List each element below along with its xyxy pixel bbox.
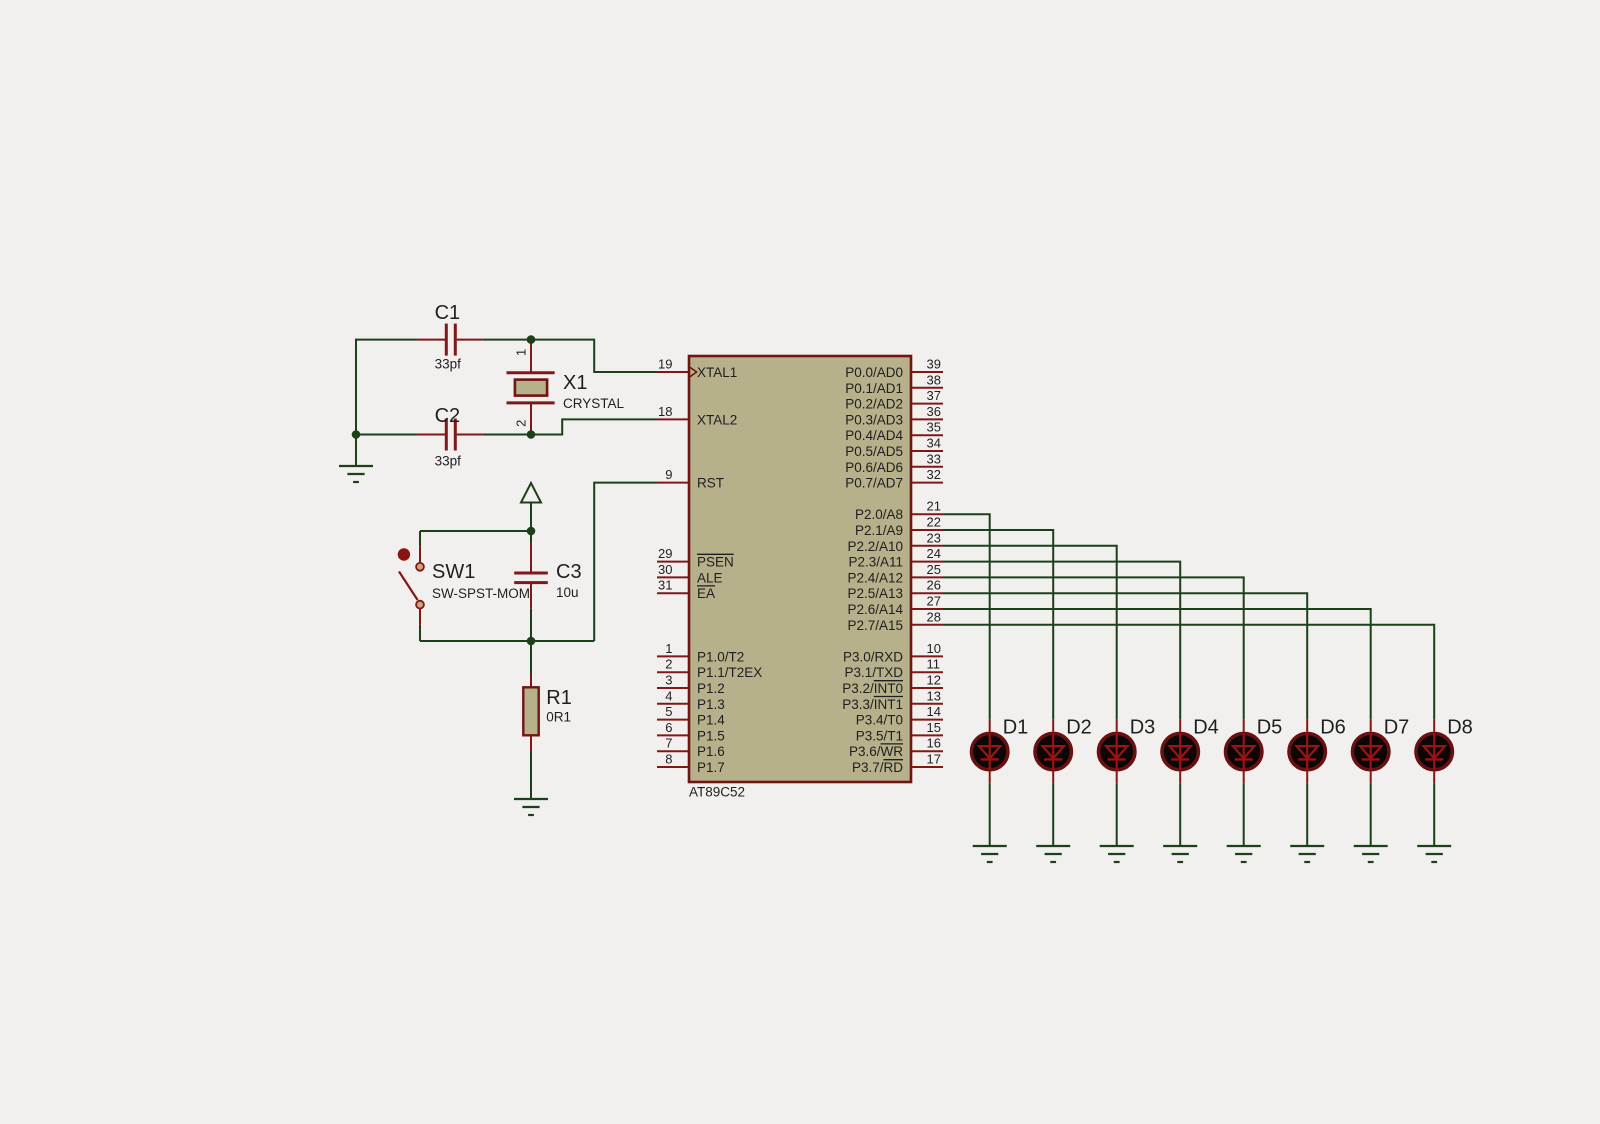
pin 8 P1.7 (U1 left) bbox=[657, 752, 725, 776]
wire R1 to ground bbox=[530, 752, 532, 800]
pin 31 EA (U1 left) bbox=[657, 578, 715, 602]
pin 10 P3.0/RXD (U1 right) bbox=[843, 641, 943, 665]
svg-text:D2: D2 bbox=[1066, 717, 1092, 739]
U1 part label AT89C52 bbox=[689, 785, 745, 800]
ground (crystal rail) bbox=[339, 466, 373, 482]
svg-text:XTAL2: XTAL2 bbox=[697, 412, 737, 427]
svg-text:XTAL1: XTAL1 bbox=[697, 365, 737, 380]
pin 21 P2.0/A8 (U1 right) bbox=[855, 499, 943, 523]
svg-text:11: 11 bbox=[927, 657, 941, 672]
pin 27 P2.6/A14 (U1 right) bbox=[847, 594, 943, 618]
junction node power/C3 top bbox=[527, 527, 536, 536]
svg-text:SW1: SW1 bbox=[432, 561, 475, 583]
svg-text:P0.0/AD0: P0.0/AD0 bbox=[845, 365, 903, 380]
pin 14 P3.4/T0 (U1 right) bbox=[856, 704, 943, 728]
ground (D4) bbox=[1163, 846, 1197, 862]
svg-text:36: 36 bbox=[927, 404, 941, 419]
pin 22 P2.1/A9 (U1 right) bbox=[855, 515, 943, 539]
wire LED D6 to ground bbox=[1306, 783, 1308, 846]
LED D1 bbox=[972, 717, 1029, 784]
svg-text:RST: RST bbox=[697, 476, 724, 491]
pin 6 P1.5 (U1 left) bbox=[657, 720, 725, 744]
pin 24 P2.3/A11 (U1 right) bbox=[848, 546, 943, 570]
wire P2.6 to LED D7 bbox=[943, 609, 1371, 719]
svg-text:15: 15 bbox=[927, 720, 941, 735]
capacitor C1 bbox=[418, 302, 483, 371]
svg-text:P0.7/AD7: P0.7/AD7 bbox=[845, 476, 903, 491]
wire LED D2 to ground bbox=[1052, 783, 1054, 846]
wire LED D7 to ground bbox=[1370, 783, 1372, 846]
svg-text:C1: C1 bbox=[435, 302, 461, 324]
svg-text:39: 39 bbox=[927, 357, 941, 372]
LED D3 bbox=[1099, 717, 1156, 784]
LED D2 bbox=[1035, 717, 1092, 784]
svg-text:P1.2: P1.2 bbox=[697, 681, 725, 696]
svg-text:0R1: 0R1 bbox=[546, 710, 571, 725]
svg-text:12: 12 bbox=[927, 673, 941, 688]
pin 36 P0.3/AD3 (U1 right) bbox=[845, 404, 943, 428]
pin 13 P3.3/INT1 (U1 right) bbox=[842, 688, 943, 712]
svg-text:14: 14 bbox=[927, 704, 941, 719]
svg-text:P3.5/T1: P3.5/T1 bbox=[856, 728, 903, 743]
junction node XTAL1/C1/X1 bbox=[527, 335, 536, 344]
wire LED D8 to ground bbox=[1433, 783, 1435, 846]
svg-text:P1.6: P1.6 bbox=[697, 744, 725, 759]
svg-text:17: 17 bbox=[927, 752, 941, 767]
svg-text:23: 23 bbox=[927, 530, 941, 545]
pin 35 P0.4/AD4 (U1 right) bbox=[845, 420, 943, 444]
pin 34 P0.5/AD5 (U1 right) bbox=[845, 436, 943, 460]
wire C1 left segment bbox=[356, 339, 418, 341]
svg-text:27: 27 bbox=[927, 594, 941, 609]
svg-text:P3.2/INT0: P3.2/INT0 bbox=[842, 681, 903, 696]
IC U1 AT89C52 body bbox=[689, 356, 911, 782]
svg-text:5: 5 bbox=[665, 704, 672, 719]
ground (D7) bbox=[1354, 846, 1388, 862]
ground (D2) bbox=[1036, 846, 1070, 862]
pin 38 P0.1/AD1 (U1 right) bbox=[845, 372, 943, 396]
svg-text:21: 21 bbox=[927, 499, 941, 514]
svg-text:P2.7/A15: P2.7/A15 bbox=[847, 618, 903, 633]
LED D8 bbox=[1416, 717, 1473, 784]
svg-text:P2.3/A11: P2.3/A11 bbox=[848, 555, 903, 570]
svg-text:C2: C2 bbox=[435, 405, 461, 427]
svg-text:D7: D7 bbox=[1384, 717, 1410, 739]
svg-text:SW-SPST-MOM: SW-SPST-MOM bbox=[432, 586, 530, 601]
svg-text:9: 9 bbox=[665, 467, 672, 482]
svg-text:P1.4: P1.4 bbox=[697, 713, 725, 728]
pin 29 PSEN (U1 left) bbox=[657, 546, 734, 570]
svg-text:33: 33 bbox=[927, 451, 941, 466]
pin 39 P0.0/AD0 (U1 right) bbox=[845, 357, 943, 381]
pin 18 XTAL2 (U1 left) bbox=[657, 404, 737, 428]
svg-text:28: 28 bbox=[927, 609, 941, 624]
svg-text:P0.1/AD1: P0.1/AD1 bbox=[845, 381, 903, 396]
wire node RST up to pin 9 bbox=[594, 483, 657, 641]
svg-text:P2.2/A10: P2.2/A10 bbox=[847, 539, 903, 554]
wire SW1 bottom to node RST bbox=[420, 625, 594, 641]
junction node left rail / C2 bbox=[352, 430, 361, 439]
svg-text:P0.5/AD5: P0.5/AD5 bbox=[845, 444, 903, 459]
pin 2 P1.1/T2EX (U1 left) bbox=[657, 657, 762, 681]
pin 23 P2.2/A10 (U1 right) bbox=[847, 530, 943, 554]
svg-text:P1.1/T2EX: P1.1/T2EX bbox=[697, 665, 762, 680]
svg-text:33pf: 33pf bbox=[435, 453, 462, 468]
svg-text:P1.3: P1.3 bbox=[697, 697, 725, 712]
wire P2.7 to LED D8 bbox=[943, 625, 1434, 719]
pin 1 P1.0/T2 (U1 left) bbox=[657, 641, 744, 665]
svg-text:R1: R1 bbox=[546, 687, 572, 709]
resistor R1 bbox=[523, 641, 572, 752]
wire C1 right to node XTAL1 bbox=[483, 340, 657, 372]
wire left rail vertical bbox=[355, 339, 357, 466]
crystal X1 bbox=[507, 340, 625, 435]
pin 28 P2.7/A15 (U1 right) bbox=[847, 609, 943, 633]
svg-text:CRYSTAL: CRYSTAL bbox=[563, 396, 625, 411]
svg-text:ALE: ALE bbox=[697, 570, 723, 585]
svg-text:D8: D8 bbox=[1447, 717, 1473, 739]
pin 19 XTAL1 (U1 left) bbox=[657, 357, 737, 381]
svg-text:P3.0/RXD: P3.0/RXD bbox=[843, 649, 903, 664]
pin 9 RST (U1 left) bbox=[657, 467, 724, 491]
pin 11 P3.1/TXD (U1 right) bbox=[844, 657, 943, 681]
power symbol (reset pull-up arrow) bbox=[521, 483, 541, 531]
svg-text:2: 2 bbox=[665, 657, 672, 672]
capacitor C2 bbox=[418, 405, 483, 469]
svg-text:30: 30 bbox=[658, 562, 672, 577]
svg-text:X1: X1 bbox=[563, 372, 587, 394]
svg-text:P1.5: P1.5 bbox=[697, 728, 725, 743]
LED D4 bbox=[1162, 717, 1219, 784]
wire C2 left segment bbox=[356, 434, 418, 436]
pin 33 P0.6/AD6 (U1 right) bbox=[845, 451, 943, 475]
svg-text:29: 29 bbox=[658, 546, 672, 561]
pin 37 P0.2/AD2 (U1 right) bbox=[845, 388, 943, 412]
pin 25 P2.4/A12 (U1 right) bbox=[847, 562, 943, 586]
ground (R1) bbox=[514, 799, 548, 815]
ground (D6) bbox=[1290, 846, 1324, 862]
svg-text:P2.6/A14: P2.6/A14 bbox=[847, 602, 903, 617]
wire P2.0 to LED D1 bbox=[943, 514, 990, 719]
svg-text:4: 4 bbox=[665, 688, 672, 703]
svg-text:18: 18 bbox=[658, 404, 672, 419]
svg-text:1: 1 bbox=[665, 641, 672, 656]
svg-text:1: 1 bbox=[514, 349, 529, 356]
svg-text:P2.4/A12: P2.4/A12 bbox=[847, 570, 903, 585]
svg-text:P1.7: P1.7 bbox=[697, 760, 725, 775]
svg-text:D6: D6 bbox=[1320, 717, 1346, 739]
svg-text:7: 7 bbox=[665, 736, 672, 751]
pin 17 P3.7/RD (U1 right) bbox=[852, 752, 943, 776]
ground (D3) bbox=[1100, 846, 1134, 862]
pin 15 P3.5/T1 (U1 right) bbox=[856, 720, 943, 744]
svg-text:D5: D5 bbox=[1257, 717, 1283, 739]
svg-text:25: 25 bbox=[927, 562, 941, 577]
svg-text:2: 2 bbox=[514, 420, 529, 427]
ground (D8) bbox=[1417, 846, 1451, 862]
svg-text:P3.3/INT1: P3.3/INT1 bbox=[842, 697, 903, 712]
junction node XTAL2/C2/X1 bbox=[527, 430, 536, 439]
capacitor C3 bbox=[514, 535, 581, 637]
LED D7 bbox=[1353, 717, 1410, 784]
wire LED D3 to ground bbox=[1116, 783, 1118, 846]
svg-text:35: 35 bbox=[927, 420, 941, 435]
LED D5 bbox=[1226, 717, 1283, 784]
pin 12 P3.2/INT0 (U1 right) bbox=[842, 673, 943, 697]
LED D6 bbox=[1289, 717, 1346, 784]
svg-text:6: 6 bbox=[665, 720, 672, 735]
svg-text:D1: D1 bbox=[1003, 717, 1029, 739]
wire P2.4 to LED D5 bbox=[943, 577, 1244, 719]
svg-text:34: 34 bbox=[927, 436, 941, 451]
svg-text:19: 19 bbox=[658, 357, 672, 372]
svg-text:8: 8 bbox=[665, 752, 672, 767]
pin 30 ALE (U1 left) bbox=[657, 562, 723, 586]
wire P2.3 to LED D4 bbox=[943, 562, 1180, 720]
wire LED D1 to ground bbox=[989, 783, 991, 846]
svg-text:EA: EA bbox=[697, 586, 715, 601]
svg-text:AT89C52: AT89C52 bbox=[689, 785, 745, 800]
svg-text:P2.5/A13: P2.5/A13 bbox=[847, 586, 903, 601]
pin 32 P0.7/AD7 (U1 right) bbox=[845, 467, 943, 491]
svg-text:P0.3/AD3: P0.3/AD3 bbox=[845, 412, 903, 427]
switch SW1 SW-SPST-MOM bbox=[398, 546, 530, 625]
svg-text:32: 32 bbox=[927, 467, 941, 482]
pin 16 P3.6/WR (U1 right) bbox=[849, 736, 943, 760]
ground (D5) bbox=[1227, 846, 1261, 862]
junction node RST/C3/R1 bbox=[527, 637, 536, 646]
wire LED D4 to ground bbox=[1179, 783, 1181, 846]
svg-text:P2.1/A9: P2.1/A9 bbox=[855, 523, 903, 538]
svg-text:22: 22 bbox=[927, 515, 941, 530]
svg-text:P3.7/RD: P3.7/RD bbox=[852, 760, 903, 775]
svg-text:P0.2/AD2: P0.2/AD2 bbox=[845, 397, 903, 412]
svg-text:10: 10 bbox=[927, 641, 941, 656]
svg-text:P3.1/TXD: P3.1/TXD bbox=[844, 665, 903, 680]
svg-text:P2.0/A8: P2.0/A8 bbox=[855, 507, 903, 522]
pin 4 P1.3 (U1 left) bbox=[657, 688, 725, 712]
svg-text:P3.4/T0: P3.4/T0 bbox=[856, 713, 903, 728]
wire LED D5 to ground bbox=[1243, 783, 1245, 846]
wire P2.2 to LED D3 bbox=[943, 546, 1117, 719]
svg-text:16: 16 bbox=[927, 736, 941, 751]
wire power to SW1/C3 top bbox=[420, 531, 531, 546]
svg-text:C3: C3 bbox=[556, 561, 582, 583]
pin 3 P1.2 (U1 left) bbox=[657, 673, 725, 697]
svg-text:13: 13 bbox=[927, 688, 941, 703]
svg-text:37: 37 bbox=[927, 388, 941, 403]
svg-text:D4: D4 bbox=[1193, 717, 1219, 739]
svg-text:P0.6/AD6: P0.6/AD6 bbox=[845, 460, 903, 475]
svg-text:26: 26 bbox=[927, 578, 941, 593]
pin 26 P2.5/A13 (U1 right) bbox=[847, 578, 943, 602]
wire C2 right to node XTAL2 bbox=[483, 419, 657, 434]
svg-text:P1.0/T2: P1.0/T2 bbox=[697, 649, 744, 664]
svg-text:3: 3 bbox=[665, 673, 672, 688]
svg-text:31: 31 bbox=[658, 578, 672, 593]
svg-text:P3.6/WR: P3.6/WR bbox=[849, 744, 903, 759]
wire P2.1 to LED D2 bbox=[943, 530, 1053, 719]
svg-text:PSEN: PSEN bbox=[697, 555, 734, 570]
svg-text:10u: 10u bbox=[556, 585, 579, 600]
ground (D1) bbox=[973, 846, 1007, 862]
pin 5 P1.4 (U1 left) bbox=[657, 704, 725, 728]
svg-text:D3: D3 bbox=[1130, 717, 1156, 739]
svg-text:38: 38 bbox=[927, 372, 941, 387]
svg-text:P0.4/AD4: P0.4/AD4 bbox=[845, 428, 903, 443]
wire P2.5 to LED D6 bbox=[943, 593, 1307, 719]
pin 7 P1.6 (U1 left) bbox=[657, 736, 725, 760]
svg-text:24: 24 bbox=[927, 546, 941, 561]
svg-text:33pf: 33pf bbox=[435, 356, 462, 371]
